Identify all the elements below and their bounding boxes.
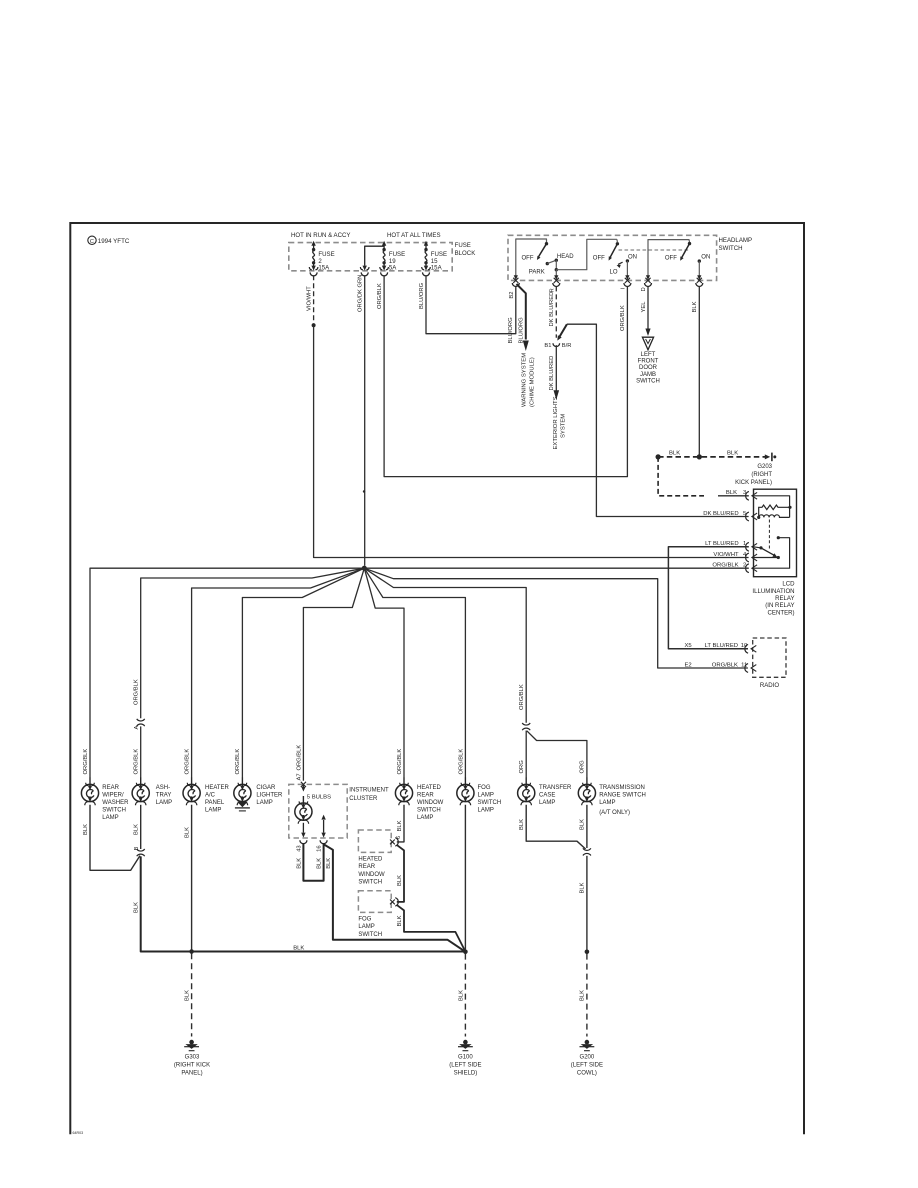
svg-text:REAR: REAR [417,792,434,798]
svg-text:G303: G303 [185,1055,200,1061]
fuse 19 5A [383,245,385,249]
wire BLK to fog lamp switch [397,845,404,902]
headlamp switch (dashed box) [508,235,717,280]
connector on fog lamp switch [395,898,398,906]
instrument cluster (dashed box) [289,784,347,838]
ash tray lamp [132,784,149,801]
page frame [70,223,804,1134]
svg-text:1994 YFTC: 1994 YFTC [98,238,130,245]
wire ORG/DK GRN from fuse block to splice [364,275,366,566]
svg-text:DOOR: DOOR [639,365,658,371]
switch 2 ON contact [626,259,629,262]
wire switch1 node to switch2 [556,239,617,269]
wire BLK (dashed) to G100 [464,954,466,1037]
svg-text:ORG/BLK: ORG/BLK [296,745,302,771]
svg-text:A: A [134,726,140,730]
LCD illumination relay box [754,489,797,577]
svg-text:INSTRUMENT: INSTRUMENT [349,787,389,793]
wire YEL from terminal D to door jamb switch [647,286,649,331]
svg-text:PARK: PARK [529,270,545,276]
svg-text:G100: G100 [458,1055,473,1061]
wire BLK transfer case lamp to connector [526,805,585,849]
switch 1 PARK contact [546,262,549,265]
svg-text:BLK: BLK [134,902,140,913]
svg-text:(IN RELAY: (IN RELAY [765,602,794,609]
svg-text:BLK: BLK [669,451,680,457]
splice node (illumination feed) [362,566,367,571]
svg-text:15A: 15A [318,265,330,272]
svg-text:REAR: REAR [102,785,119,791]
svg-text:ORG/BLK: ORG/BLK [235,749,241,775]
wire ORG/BLK to fog lamp switch lamp [364,568,465,777]
wire ORG/BLK to cigar lighter lamp [242,568,364,777]
svg-text:C: C [90,239,94,245]
terminal B2 [513,278,518,283]
svg-text:BLK: BLK [458,990,464,1001]
svg-text:LAMP: LAMP [205,808,221,814]
wire BLK pins 43/16 tie [303,843,323,880]
svg-text:BLK: BLK [580,819,586,830]
svg-text:WIPER/: WIPER/ [102,792,124,798]
cluster feed connector at top edge [301,782,306,787]
rear wiper/washer switch lamp [81,784,98,801]
connector pin 6 on heated rear window switch [395,838,398,846]
svg-text:LAMP: LAMP [417,815,433,821]
fog lamp switch (dashed box) [358,891,391,913]
svg-text:BLOCK: BLOCK [455,250,476,257]
svg-text:SYSTEM: SYSTEM [561,414,567,438]
svg-text:A7: A7 [296,773,302,780]
svg-text:ORG/BLK: ORG/BLK [519,684,525,710]
svg-text:6: 6 [396,836,402,839]
wire LT BLU/RED relay pin1 to radio pin10 [668,547,748,649]
ground bus BLK (dashed) to G203 [658,456,765,458]
relay pin 5 connector [746,512,749,521]
svg-text:HEATED: HEATED [417,785,442,791]
fuse 15 15A [425,245,427,249]
terminal D [645,278,650,283]
connector on transfer case lamp feed [522,723,530,725]
svg-text:RANGE SWITCH: RANGE SWITCH [599,792,646,798]
svg-text:43: 43 [297,845,303,851]
connector on transmission lamp ground [583,848,591,850]
svg-text:B1: B1 [544,343,551,349]
wire ORG/BLK to radio pin 11 [364,568,748,668]
svg-text:HOT IN RUN & ACCY: HOT IN RUN & ACCY [291,232,350,239]
wire BLK cluster ground to G100 junction [324,845,463,951]
svg-text:BLK: BLK [580,990,586,1001]
ground terminal of headlamp switch [697,278,702,283]
fuse block (dashed box) [289,243,452,271]
svg-text:ORG/DK GRN: ORG/DK GRN [358,275,364,312]
svg-text:LAMP: LAMP [156,800,172,806]
wire BLK connector B to ground bus [141,856,466,951]
wire BLK lamp to heated rear window switch pin 6 [397,805,404,842]
fuse 2 15A [313,245,315,249]
svg-text:ORG/BLK: ORG/BLK [397,749,403,775]
svg-text:(LEFT SIDE: (LEFT SIDE [449,1063,481,1069]
svg-text:BLK: BLK [185,990,191,1001]
svg-text:VIO/WHT: VIO/WHT [307,286,313,311]
svg-text:LAMP: LAMP [256,800,272,806]
svg-text:5 BULBS: 5 BULBS [307,795,331,801]
svg-text:KICK PANEL): KICK PANEL) [735,480,772,486]
svg-text:(CHIME MODULE): (CHIME MODULE) [530,357,536,407]
svg-text:RADIO: RADIO [760,682,780,689]
svg-text:LAMP: LAMP [599,800,615,806]
svg-text:ORG/BLK: ORG/BLK [83,749,89,775]
svg-text:15A: 15A [431,265,443,272]
svg-text:BLU/ORG: BLU/ORG [518,317,524,344]
svg-text:BLK: BLK [727,451,738,457]
svg-text:SWITCH: SWITCH [417,808,441,814]
svg-text:(RIGHT: (RIGHT [751,472,772,478]
wire BLK to G200 junction [586,856,588,950]
wire BLK fog switch to G100 junction [397,905,465,950]
svg-text:D: D [641,287,647,291]
svg-text:ORG/BLK: ORG/BLK [620,305,626,331]
transmission range switch lamp [578,784,595,801]
svg-text:ORG/BLK: ORG/BLK [377,283,383,309]
ground G200 [585,1040,590,1045]
svg-text:HEAD: HEAD [557,254,574,260]
wire ORG/BLK to heater panel lamp [192,568,365,777]
svg-text:RELAY: RELAY [775,595,795,602]
terminal R [554,278,559,283]
wire DK BLU/RED to exterior lights system [555,345,557,392]
relay resistor (parallel with coil) [759,505,790,516]
wire ORG/BLK to relay pin 2 [364,567,749,569]
wire ORG/BLK connector A to ash tray lamp [140,726,142,777]
relay pin 2 connector [746,564,749,573]
switch 2 LO contact [618,262,623,264]
copyright note [88,236,96,244]
switch 3 feed wire from terminal D [648,240,690,277]
connector B1 [560,324,567,337]
svg-text:BLK: BLK [297,858,303,869]
cigar lighter lamp case ground [237,802,247,807]
relay switch armature [759,546,762,549]
svg-text:LO: LO [610,269,618,275]
wire ORG/BLK to ash tray lamp [141,568,365,718]
heater A/C panel lamp [183,784,200,801]
svg-text:(RIGHT KICK: (RIGHT KICK [174,1063,210,1069]
wire ORG/BLK fuse 19 to headlamp switch terminal I [384,275,627,476]
svg-text:ORG/BLK: ORG/BLK [134,679,140,705]
cluster bulb ground arrow to pin 43 [302,823,304,833]
junction dot on ORG/DK GRN wire [363,490,365,492]
svg-text:VIO/WHT: VIO/WHT [713,552,739,558]
radio pin 11 connector [745,664,748,673]
relay common contact from pin 4 [754,557,779,559]
svg-text:5A: 5A [389,265,397,272]
svg-text:BLK: BLK [726,490,737,496]
relay internal: pin3 wire [754,496,790,518]
svg-text:BLU/ORG: BLU/ORG [508,317,514,344]
transfer case lamp [518,784,535,801]
switch 3 movable arm [688,242,691,245]
svg-text:BLK: BLK [134,824,140,835]
svg-text:CIGAR: CIGAR [256,785,276,791]
wire DK BLU/RED branch to LCD relay pin 5 [567,324,749,516]
svg-text:SWITCH: SWITCH [478,800,502,806]
svg-text:LAMP: LAMP [102,815,118,821]
svg-text:SWITCH: SWITCH [358,932,382,938]
relay pin 4 connector [746,553,749,562]
terminal I [625,278,630,283]
svg-text:B: B [134,847,140,851]
svg-text:ORG/BLK: ORG/BLK [458,749,464,775]
wire BLK (dashed) to G303 [191,953,193,1036]
svg-text:BLK: BLK [83,824,89,835]
svg-text:64R03: 64R03 [73,1131,84,1135]
svg-text:ORG/BLK: ORG/BLK [185,749,191,775]
relay armature link (dashed) [768,520,770,550]
svg-text:BLK: BLK [580,882,586,893]
svg-text:HEADLAMP: HEADLAMP [719,237,753,244]
svg-text:ORG: ORG [519,760,525,774]
fuse 19 hot tap wire [365,246,384,266]
svg-text:SWITCH: SWITCH [102,808,126,814]
cigar lighter lamp [234,784,251,801]
svg-text:A/C: A/C [205,792,216,798]
svg-text:YEL: YEL [641,301,647,313]
svg-text:CLUSTER: CLUSTER [349,796,378,802]
wire ORG/BLK to instrument cluster [303,568,364,781]
connector A (ash tray lamp feed) [137,719,145,721]
G203 ground attachment [765,454,770,459]
svg-text:COWL): COWL) [577,1071,597,1077]
ground G100 [463,1040,468,1045]
svg-text:LAMP: LAMP [478,792,494,798]
svg-text:PANEL): PANEL) [181,1071,202,1077]
switch 1 HEAD contact / output node [555,259,558,262]
svg-text:G200: G200 [580,1055,595,1061]
wire ORG/BLK to transfer case lamp column [364,568,526,723]
wire ORG to transfer case lamp [525,731,527,778]
junction at G303 drop [189,949,194,954]
svg-text:FUSE: FUSE [455,242,471,249]
wire BLK from headlamp switch to G203 bus [698,286,700,455]
svg-text:BLU/ORG: BLU/ORG [419,282,425,309]
svg-text:WASHER: WASHER [102,800,129,806]
svg-text:BLK: BLK [185,827,191,838]
svg-text:WARNING SYSTEM: WARNING SYSTEM [522,353,528,407]
svg-text:REAR: REAR [358,864,375,870]
heated rear window switch lamp [395,784,412,801]
svg-text:(A/T ONLY): (A/T ONLY) [599,810,630,816]
svg-text:BLK: BLK [326,858,332,869]
svg-text:DK BLU/RED: DK BLU/RED [703,511,738,517]
wire BLU/ORG fuse 15 to terminal B2 [426,275,516,334]
left front door jamb switch symbol [642,337,653,350]
svg-text:BLK: BLK [519,819,525,830]
radio pin 10 connector [745,644,748,653]
svg-text:BLK: BLK [397,875,403,886]
svg-text:G203: G203 [757,464,772,470]
switch 2 output to terminal I [626,261,628,276]
wire BLK transmission range lamp down [586,805,588,848]
svg-text:SWITCH: SWITCH [719,245,743,252]
relay pin 1 connector [746,542,749,551]
svg-text:DK BLU/RED: DK BLU/RED [549,356,555,391]
svg-text:LAMP: LAMP [539,800,555,806]
svg-text:ILLUMINATION: ILLUMINATION [752,588,794,595]
svg-text:PANEL: PANEL [205,800,225,806]
wire ORG/BLK to rear wiper lamp [90,568,364,777]
svg-text:FOG: FOG [358,917,371,923]
svg-text:HEATER: HEATER [205,785,230,791]
svg-text:WINDOW: WINDOW [417,800,444,806]
svg-text:OFF: OFF [593,256,605,262]
svg-text:LAMP: LAMP [478,808,494,814]
ground G303 [189,1040,194,1045]
cluster bulb feed arrow [302,784,304,787]
svg-text:FRONT: FRONT [638,359,659,365]
wire BLK heater panel lamp to G303 [191,805,193,950]
relay coil [757,516,760,519]
connector B (ground junction) [137,849,145,851]
svg-text:SHIELD): SHIELD) [454,1071,478,1077]
svg-text:BLK: BLK [692,301,698,312]
switch 3 ON contact [698,259,701,262]
svg-text:B2: B2 [509,292,515,299]
relay pin 3 connector [746,491,749,500]
wire BLU/ORG branch to warning system [517,284,526,340]
heated rear window switch (dashed box) [358,830,391,852]
wire VIO/WHT from fuse 2 [313,275,315,323]
svg-text:CASE: CASE [539,792,555,798]
svg-text:BLK: BLK [317,858,323,869]
G200 junction [585,950,590,955]
wire BLK (dashed) to relay pin 3 [658,457,704,496]
svg-text:TRAY: TRAY [156,792,172,798]
svg-text:JAMB: JAMB [640,372,656,378]
mechanical link (dashed) [619,249,690,251]
instrument cluster bulb (5 bulbs) [295,803,312,820]
wire BLK rear wiper lamp to connector B [90,805,140,871]
svg-text:HEATED: HEATED [358,857,383,863]
svg-text:ON: ON [701,254,710,260]
svg-text:CENTER): CENTER) [768,609,795,616]
radio (dashed box) [753,638,786,677]
svg-text:BLK: BLK [397,915,403,926]
switch 3 output to ground terminal [698,261,700,276]
G100 junction [463,950,468,955]
switch 1 movable arm (OFF/PARK/HEAD) [545,242,548,245]
wire BLK (dashed) to G200 [586,954,588,1037]
wire BLK ash tray lamp to connector B [140,805,142,849]
wire ORG/BLK to heated rear window switch lamp [364,568,404,777]
fog lamp switch lamp [457,784,474,801]
svg-text:OFF: OFF [665,256,677,262]
svg-text:ORG: ORG [580,760,586,774]
svg-text:ON: ON [628,254,637,260]
svg-text:EXTERIOR LIGHTS: EXTERIOR LIGHTS [553,396,559,449]
svg-text:FOG: FOG [478,785,491,791]
svg-text:TRANSFER: TRANSFER [539,785,572,791]
svg-text:ASH-: ASH- [156,785,170,791]
svg-text:HOT AT ALL TIMES: HOT AT ALL TIMES [387,232,441,239]
svg-text:BLK: BLK [293,946,304,952]
relay contact to pin 2 [777,536,780,539]
svg-text:B/R: B/R [562,343,572,349]
svg-text:DK BLU/RED: DK BLU/RED [549,292,555,327]
wire ORG branch to transmission range switch lamp [527,731,587,778]
svg-text:OFF: OFF [522,256,534,262]
cluster second ground arrow to pin 16 [323,820,325,833]
svg-text:WINDOW: WINDOW [358,872,385,878]
svg-text:SWITCH: SWITCH [636,378,660,384]
svg-text:(LEFT SIDE: (LEFT SIDE [571,1063,603,1069]
svg-text:16: 16 [317,845,323,851]
svg-text:TRANSMISSION: TRANSMISSION [599,785,645,791]
svg-text:SWITCH: SWITCH [358,879,382,885]
svg-text:LIGHTER: LIGHTER [256,792,283,798]
switch 1 output to terminal R [555,270,557,277]
svg-text:ORG/BLK: ORG/BLK [134,749,140,775]
svg-text:LCD: LCD [782,581,795,588]
wire DK BLU/RED from terminal R to connector B1 [555,286,557,337]
wire BLK fog lamp switch lamp to G100 junction [464,805,466,950]
svg-text:BLK: BLK [397,820,403,831]
switch section 1 feed wire from terminal B2 [516,239,547,276]
switch 2 movable arm (panel dimmer) [616,239,619,242]
svg-text:LAMP: LAMP [358,924,374,930]
svg-text:LEFT: LEFT [641,352,656,358]
